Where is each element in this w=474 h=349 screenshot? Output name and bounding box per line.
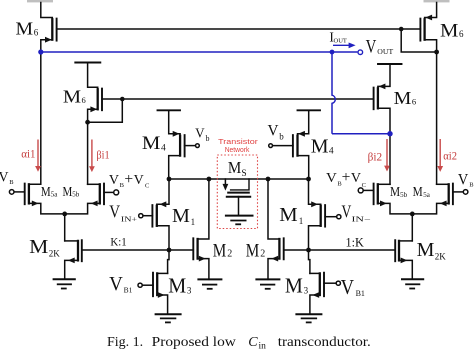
svg-text:M: M	[279, 204, 298, 226]
transistor M4 right	[269, 110, 309, 179]
svg-text:OUT: OUT	[334, 38, 347, 45]
svg-text:M: M	[417, 239, 435, 261]
svg-text:in: in	[259, 342, 267, 349]
transistor M5b right	[358, 184, 412, 214]
svg-text:V: V	[109, 201, 120, 221]
wire K:1 gate line left	[82, 249, 194, 251]
svg-text:2K: 2K	[49, 248, 61, 258]
current arrow alpha-i1	[35, 140, 41, 172]
svg-text:M: M	[394, 88, 412, 108]
svg-text:V: V	[341, 275, 355, 299]
svg-text:OUT: OUT	[377, 48, 394, 56]
svg-text:M: M	[142, 133, 161, 154]
svg-text:V: V	[326, 170, 337, 185]
ground under Ms	[226, 216, 253, 225]
wire blue bottom horizontal	[332, 133, 390, 135]
wire middle rail	[169, 178, 309, 180]
svg-text:3: 3	[304, 286, 309, 296]
ground under M3 left	[156, 314, 181, 322]
transistor M6 top-right (diode connected)	[420, 3, 436, 53]
svg-text:V: V	[268, 122, 279, 139]
svg-text:C: C	[362, 182, 366, 189]
terminal Vout open circle	[358, 50, 363, 55]
transistor M5b left	[65, 184, 119, 214]
wire tail right	[411, 214, 413, 241]
svg-text:M: M	[285, 274, 303, 298]
node rail M2L drain	[207, 177, 212, 182]
node blue left	[38, 49, 43, 54]
transistor M2 right	[268, 179, 284, 279]
svg-text:IN−: IN−	[352, 215, 371, 224]
transistor M1 left	[139, 179, 169, 250]
wire left inner column	[87, 122, 89, 184]
transistor M6 top-left	[41, 3, 57, 52]
wire 2nd row gate line M6-M6	[102, 98, 374, 100]
svg-text:V: V	[458, 171, 469, 188]
wire gate-drain loop of M6 top-right	[401, 29, 436, 52]
svg-text:b: b	[206, 134, 210, 143]
transistor M2K right	[395, 240, 412, 279]
transistor M6 second-row right	[374, 64, 390, 134]
svg-text:αi2: αi2	[443, 150, 457, 162]
svg-text:V: V	[134, 172, 144, 187]
ground under M2 right	[256, 279, 279, 288]
node blue right	[387, 131, 392, 136]
transistor M1 right	[309, 179, 341, 250]
wire top gate line M6TL-M6TR	[57, 28, 421, 30]
wire M1L source to M3L drain	[168, 250, 169, 273]
VDD clipped bar right	[424, 0, 450, 2]
wire blue vertical with hop	[332, 52, 335, 134]
red current arrows	[35, 139, 443, 172]
svg-text:M: M	[413, 185, 424, 200]
svg-text:5b: 5b	[72, 191, 80, 199]
svg-text:3: 3	[187, 286, 192, 296]
node blue Iout junction	[330, 50, 335, 55]
supply bar above M4 right	[298, 109, 321, 111]
transistor M2 left	[193, 179, 209, 279]
svg-text:+: +	[342, 169, 351, 186]
ground under M3 right	[296, 314, 321, 322]
svg-text:5b: 5b	[400, 191, 408, 199]
svg-text:2: 2	[227, 249, 232, 260]
svg-text:M: M	[63, 185, 73, 200]
node rail M4L/M1L	[167, 177, 172, 182]
transistor M3 right	[310, 273, 341, 314]
svg-text:4: 4	[161, 144, 166, 154]
transistor M5a right	[412, 184, 468, 214]
current arrow beta-i1	[89, 140, 95, 173]
svg-text:M: M	[440, 20, 458, 41]
svg-text:V: V	[342, 202, 352, 222]
current arrow alpha-i2	[437, 139, 443, 172]
svg-text:5a: 5a	[51, 191, 59, 199]
svg-text:C: C	[145, 183, 149, 190]
svg-text:M: M	[172, 205, 190, 227]
node K1 junction left	[167, 248, 172, 253]
transistor M4 left	[169, 110, 200, 179]
VDD clipped bar left	[27, 0, 53, 2]
svg-text:1:K: 1:K	[346, 236, 364, 250]
svg-text:V: V	[351, 170, 361, 185]
svg-text:B: B	[469, 182, 474, 189]
svg-text:C: C	[248, 335, 258, 349]
svg-text:B1: B1	[356, 289, 365, 298]
svg-text:M: M	[246, 241, 260, 262]
svg-text:1: 1	[191, 217, 196, 227]
supply bar above M4 left	[158, 109, 181, 111]
wire M1R source to M3R drain	[309, 250, 310, 273]
svg-text:Network: Network	[225, 147, 250, 154]
transistor Ms (MOS network)	[223, 179, 251, 215]
wire right outer column	[436, 52, 438, 184]
Iout current arrow	[333, 44, 350, 46]
node tail right	[410, 212, 415, 217]
svg-text:5a: 5a	[423, 191, 431, 199]
svg-text:2: 2	[260, 249, 265, 260]
svg-text:6: 6	[459, 29, 464, 39]
svg-text:6: 6	[34, 27, 39, 37]
svg-text:Proposed low: Proposed low	[152, 335, 237, 349]
ground under M2K left	[54, 279, 75, 288]
svg-text:Transistor: Transistor	[218, 139, 258, 146]
node M6 2L drain junction	[85, 120, 90, 125]
svg-text:B: B	[9, 179, 14, 186]
svg-text:S: S	[241, 169, 246, 179]
node rail M4R/M1R	[306, 177, 311, 182]
node tail left	[62, 212, 67, 217]
current arrow beta-i2	[384, 139, 390, 172]
svg-text:M: M	[29, 236, 48, 258]
wire 1:K gate line right	[284, 249, 396, 251]
transistor M3 left	[138, 273, 168, 314]
svg-text:V: V	[366, 38, 377, 58]
svg-text:V: V	[109, 273, 123, 295]
svg-text:V: V	[195, 126, 205, 141]
svg-text:B1: B1	[124, 285, 133, 294]
svg-text:6: 6	[412, 97, 416, 107]
node rail M2R drain	[266, 177, 271, 182]
node top-right drain junction	[434, 50, 439, 55]
svg-text:6: 6	[82, 95, 86, 105]
node top-right gate junction	[399, 27, 404, 32]
svg-text:Fig. 1.: Fig. 1.	[107, 335, 143, 349]
svg-text:M: M	[390, 185, 401, 200]
svg-text:1: 1	[299, 216, 304, 226]
wire right inner column	[389, 134, 391, 185]
svg-text:M: M	[311, 136, 329, 158]
supply bar above M6 second-row right	[378, 63, 402, 65]
transistor M6 second-row left (diode connected)	[88, 63, 102, 123]
ground under M2 left	[198, 279, 221, 288]
svg-text:V: V	[109, 172, 119, 187]
svg-text:βi2: βi2	[368, 151, 383, 163]
transistor M2K left	[65, 240, 82, 279]
svg-text:M: M	[16, 19, 34, 39]
svg-text:2K: 2K	[435, 251, 447, 261]
svg-text:M: M	[41, 185, 51, 200]
svg-text:αi1: αi1	[21, 148, 36, 160]
svg-text:βi1: βi1	[96, 150, 109, 162]
ground under M2K right	[402, 279, 423, 288]
svg-text:M: M	[168, 274, 186, 298]
svg-text:M: M	[228, 158, 241, 177]
wire gate-drain loop of M6 second-row left	[88, 99, 123, 122]
svg-text:M: M	[63, 86, 81, 106]
svg-text:K:1: K:1	[110, 237, 127, 249]
blue output net	[38, 43, 392, 137]
svg-text:4: 4	[329, 147, 334, 157]
wire tail left	[64, 214, 66, 241]
svg-text:+: +	[124, 171, 133, 188]
transistor M5a left	[9, 52, 64, 214]
svg-text:b: b	[279, 131, 284, 141]
svg-text:V: V	[0, 170, 9, 186]
node loop gate junction	[120, 97, 125, 102]
Transistor Network dashed red box	[217, 155, 257, 229]
wire blue Vout horizontal	[41, 51, 358, 53]
svg-text:IN+: IN+	[121, 214, 137, 223]
supply bar above M6 second-row left	[75, 62, 100, 64]
svg-text:transconductor.: transconductor.	[278, 335, 371, 349]
node K1 junction right	[306, 248, 311, 253]
svg-text:M: M	[213, 241, 227, 262]
